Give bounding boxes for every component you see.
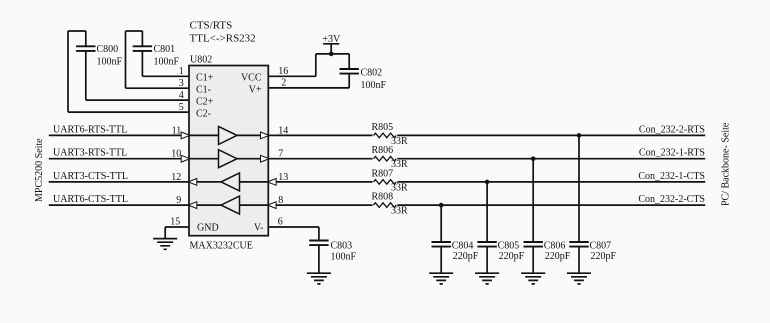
svg-text:Con_232-2-CTS: Con_232-2-CTS [638,194,705,205]
svg-text:33R: 33R [391,206,408,217]
svg-text:Con_232-2-RTS: Con_232-2-RTS [639,124,705,135]
svg-text:10: 10 [171,149,181,160]
svg-text:14: 14 [278,125,288,136]
svg-text:TTL<->RS232: TTL<->RS232 [190,33,256,45]
svg-text:MAX3232CUE: MAX3232CUE [190,241,253,252]
svg-text:Con_232-1-CTS: Con_232-1-CTS [638,171,705,182]
svg-text:GND: GND [197,223,219,234]
svg-text:33R: 33R [391,136,408,147]
svg-text:MPC5200 Seite: MPC5200 Seite [34,138,45,202]
svg-text:100nF: 100nF [154,56,180,67]
svg-text:100nF: 100nF [331,252,357,263]
svg-text:1: 1 [179,66,184,77]
svg-text:UART3-CTS-TTL: UART3-CTS-TTL [53,171,128,182]
svg-text:V-: V- [254,223,264,234]
svg-text:PC/ Backbone- Seite: PC/ Backbone- Seite [721,122,732,206]
svg-text:220pF: 220pF [591,251,617,262]
svg-text:4: 4 [179,90,184,101]
svg-text:C806: C806 [544,240,566,251]
svg-text:Con_232-1-RTS: Con_232-1-RTS [639,148,705,159]
svg-text:C801: C801 [154,44,176,55]
svg-text:16: 16 [278,66,288,77]
svg-text:UART6-CTS-TTL: UART6-CTS-TTL [53,194,128,205]
svg-text:13: 13 [278,172,288,183]
svg-text:3: 3 [179,78,184,89]
svg-text:+3V: +3V [322,34,341,45]
svg-text:U802: U802 [190,55,212,66]
svg-text:2: 2 [281,78,286,89]
svg-text:220pF: 220pF [545,251,571,262]
svg-text:220pF: 220pF [453,251,479,262]
svg-text:C2-: C2- [196,108,211,119]
svg-text:7: 7 [278,149,283,160]
svg-text:R807: R807 [372,168,394,179]
svg-text:C800: C800 [97,44,119,55]
svg-text:C802: C802 [361,68,383,79]
svg-text:C803: C803 [331,240,353,251]
svg-text:C805: C805 [498,240,520,251]
svg-text:C1-: C1- [196,84,211,95]
svg-text:R806: R806 [372,145,394,156]
svg-text:6: 6 [278,217,283,228]
svg-text:UART6-RTS-TTL: UART6-RTS-TTL [53,124,127,135]
svg-text:R805: R805 [372,122,394,133]
svg-text:33R: 33R [391,159,408,170]
svg-text:15: 15 [170,217,180,228]
svg-text:5: 5 [179,102,184,113]
svg-text:100nF: 100nF [361,80,387,91]
svg-text:9: 9 [176,195,181,206]
svg-text:12: 12 [171,172,181,183]
svg-text:220pF: 220pF [499,251,525,262]
svg-text:C804: C804 [452,240,474,251]
svg-text:UART3-RTS-TTL: UART3-RTS-TTL [53,148,127,159]
svg-text:8: 8 [278,195,283,206]
svg-text:C2+: C2+ [196,96,214,107]
svg-text:100nF: 100nF [97,56,123,67]
svg-text:VCC: VCC [241,73,262,84]
svg-text:R808: R808 [372,192,394,203]
svg-text:CTS/RTS: CTS/RTS [190,20,233,32]
svg-text:V+: V+ [249,84,262,95]
svg-text:C807: C807 [590,240,612,251]
svg-text:11: 11 [172,125,182,136]
svg-text:C1+: C1+ [196,73,214,84]
svg-text:33R: 33R [391,182,408,193]
